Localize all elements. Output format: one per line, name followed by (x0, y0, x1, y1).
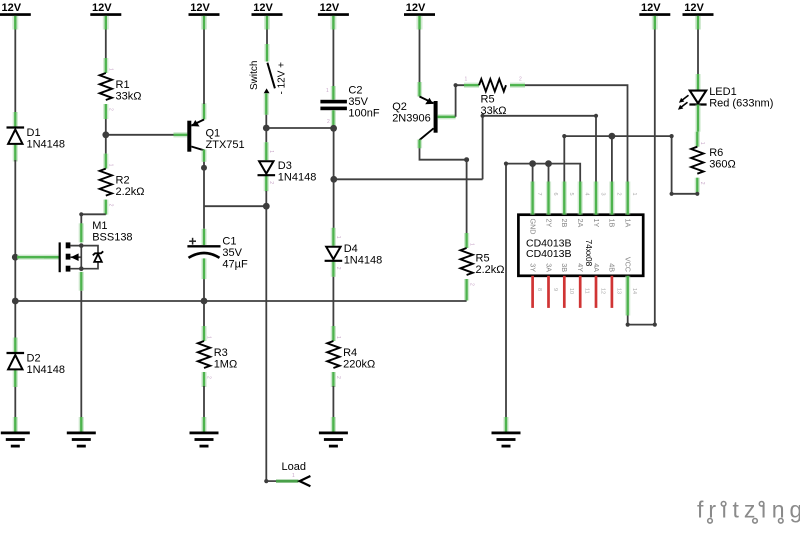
svg-text:2: 2 (615, 193, 621, 196)
ground GND2 (67, 417, 96, 448)
svg-text:2: 2 (335, 267, 341, 270)
pin 4B U1 bottom pin 13 unconnected (608, 263, 622, 308)
svg-text:35V: 35V (222, 247, 242, 259)
svg-text:1N4148: 1N4148 (344, 255, 383, 267)
svg-text:6: 6 (552, 193, 558, 196)
wire Q1 collector to C1 and D3 tap (203, 168, 205, 229)
resistor R3 1M&#937; (198, 326, 237, 387)
wire R1 to junction (105, 119, 107, 154)
svg-text:35V: 35V (348, 96, 368, 108)
wire junction to Q1 base (106, 134, 174, 136)
wire GND 2Y 2A header run (506, 164, 580, 182)
wire D4 to R4 crossing bus (332, 277, 334, 326)
svg-text:12V: 12V (641, 2, 661, 14)
diode D4 1N4148 (325, 228, 383, 277)
svg-text:2A: 2A (576, 219, 585, 228)
svg-text:1: 1 (699, 142, 705, 145)
svg-text:12V: 12V (190, 2, 210, 14)
svg-text:1: 1 (468, 243, 474, 246)
svg-text:360Ω: 360Ω (709, 159, 736, 171)
wire R2 to M1 drain (81, 214, 106, 224)
svg-text:2: 2 (335, 376, 341, 379)
wire 2Y pin stub (548, 164, 550, 182)
wire bus to R3 (203, 301, 205, 326)
svg-text:12V: 12V (320, 2, 340, 14)
ground GND3 (190, 417, 219, 448)
pin 1A U1 top pin 1 (624, 182, 638, 228)
svg-text:R5: R5 (476, 253, 490, 265)
svg-text:12V: 12V (684, 2, 704, 14)
wire D3 to collector node (265, 191, 267, 206)
ground GND1 (1, 417, 30, 448)
svg-text:ZTX751: ZTX751 (206, 139, 245, 151)
svg-text:2B: 2B (560, 219, 569, 228)
svg-text:R2: R2 (116, 175, 130, 187)
svg-text:Switch: Switch (249, 61, 260, 90)
svg-text:C2: C2 (348, 85, 362, 97)
junction GND pin (529, 160, 536, 167)
svg-text:9: 9 (552, 288, 558, 291)
svg-text:Load: Load (282, 461, 306, 473)
svg-text:1MΩ: 1MΩ (214, 359, 238, 371)
svg-text:- 12V +: - 12V + (277, 62, 288, 95)
svg-text:12V: 12V (2, 2, 22, 14)
resistor R2 2.2k&#937; (100, 154, 145, 215)
wire R6 bottom corner (695, 192, 699, 196)
svg-text:1: 1 (292, 473, 295, 479)
svg-text:2: 2 (268, 181, 274, 184)
svg-text:1: 1 (108, 68, 114, 71)
resistor R5 33k horizontal (464, 77, 525, 118)
svg-text:C1: C1 (222, 236, 236, 248)
svg-text:VCC: VCC (624, 257, 633, 272)
svg-text:12V: 12V (406, 2, 426, 14)
wire gate net to M1 gate (17, 255, 59, 260)
junction D3-collector-load node (263, 203, 270, 210)
wire Q2 base up to R5 (456, 85, 465, 117)
wire R5 2.2k to bus (464, 294, 469, 301)
svg-text:2: 2 (468, 283, 474, 286)
svg-text:4B: 4B (608, 263, 617, 272)
svg-text:13: 13 (615, 288, 621, 294)
svg-text:1: 1 (206, 336, 212, 339)
svg-text:R4: R4 (343, 347, 357, 359)
svg-text:33kΩ: 33kΩ (481, 105, 507, 117)
pin 1B U1 top pin 2 (608, 182, 622, 228)
capacitor C1 35V 47uF electrolytic (187, 229, 248, 279)
capacitor C2 35V 100nF (320, 85, 379, 129)
wire R5 to 1A riser (525, 85, 628, 181)
power +12V P1 (0, 2, 31, 30)
svg-text:CD4013B: CD4013B (526, 248, 572, 260)
svg-text:2: 2 (206, 376, 212, 379)
wire 12V P6 to Q2 emitter (419, 30, 421, 84)
svg-text:10: 10 (568, 288, 574, 294)
svg-text:2: 2 (699, 182, 705, 185)
wire 12V P5 to C2 (332, 30, 334, 89)
LED LED1 Red 633nm (678, 74, 774, 132)
wire VCC to 12V P7 (628, 30, 655, 325)
diode D2 1N4148 (7, 338, 66, 388)
wire C1 to bus (203, 279, 205, 301)
svg-text:33kΩ: 33kΩ (116, 91, 142, 103)
svg-text:BSS138: BSS138 (92, 232, 132, 244)
svg-text:M1: M1 (92, 220, 107, 232)
svg-text:8: 8 (536, 288, 542, 291)
svg-text:D1: D1 (27, 127, 41, 139)
svg-text:2.2kΩ: 2.2kΩ (476, 264, 505, 276)
svg-text:14: 14 (631, 288, 637, 294)
svg-text:220kΩ: 220kΩ (343, 359, 375, 371)
wire 2B up and right to LED net (564, 136, 697, 194)
pin 1Y U1 top pin 3 (592, 182, 606, 228)
svg-text:R6: R6 (709, 147, 723, 159)
load terminal (264, 461, 310, 486)
wire R3 to ground (203, 386, 205, 418)
svg-text:1: 1 (108, 164, 114, 167)
svg-text:47µF: 47µF (222, 259, 248, 271)
pin GND U1 top pin 7 (528, 182, 542, 235)
power +12V P4 (252, 2, 283, 30)
wire top run to 1Y pin column (483, 116, 596, 182)
wire 12V P2 to R1 (105, 30, 107, 59)
wire GND pin stub (532, 164, 534, 182)
ground GND4 (319, 417, 348, 448)
svg-text:R5: R5 (481, 94, 495, 106)
svg-text:11: 11 (584, 288, 590, 294)
svg-text:1N4148: 1N4148 (27, 139, 66, 151)
junction C2-switch-D4 node (330, 125, 337, 132)
junction Q2 collector bend (464, 157, 469, 162)
svg-text:R3: R3 (214, 347, 228, 359)
svg-text:D4: D4 (344, 243, 358, 255)
wire Q1 collector down (203, 162, 205, 168)
junction node gate-net at D1-D2 column (12, 254, 19, 261)
wire 12V P3 to Q1 emitter (203, 30, 205, 105)
svg-text:LED1: LED1 (709, 86, 737, 98)
svg-text:12V: 12V (92, 2, 112, 14)
power +12V P5 (318, 2, 349, 30)
svg-text:4Y: 4Y (576, 263, 585, 272)
junction C1-bus-R3 (201, 298, 208, 305)
svg-text:1N4148: 1N4148 (278, 172, 317, 184)
transistor Q1 ZTX751 pnp (174, 103, 245, 162)
power +12V P6 (404, 2, 435, 30)
svg-text:1Y: 1Y (592, 219, 601, 228)
svg-text:100nF: 100nF (348, 108, 379, 120)
junction Q1 collector node (201, 165, 207, 171)
wire C2 node down to 1Y tap (333, 128, 335, 179)
svg-text:2: 2 (108, 108, 114, 111)
svg-text:3: 3 (600, 193, 606, 196)
svg-text:2N3906: 2N3906 (392, 113, 431, 125)
switch SW1 SPST (249, 44, 287, 115)
wire 12V P1 to D1 anode-top (14, 30, 16, 113)
svg-text:Red (633nm): Red (633nm) (709, 98, 773, 110)
svg-text:GND: GND (528, 219, 537, 235)
svg-text:5: 5 (568, 193, 574, 196)
svg-text:R1: R1 (116, 79, 130, 91)
svg-text:7: 7 (536, 193, 542, 196)
power +12V P3 (189, 2, 220, 30)
svg-text:2.2kΩ: 2.2kΩ (116, 186, 145, 198)
pin 2Y U1 top pin 6 (544, 182, 558, 228)
pin 4A U1 bottom pin 12 unconnected (592, 263, 606, 308)
svg-text:3B: 3B (560, 263, 569, 272)
op-amp U1 CD4013B quad gate 74xx08 (518, 215, 643, 276)
svg-text:D2: D2 (27, 353, 41, 365)
resistor R4 220k&#937; (327, 326, 375, 387)
junction node bus at D1-D2 column (12, 298, 19, 305)
svg-text:1A: 1A (624, 219, 633, 228)
wire switch to node SW-C2 (265, 115, 267, 128)
svg-text:3A: 3A (544, 263, 553, 272)
svg-text:1: 1 (268, 150, 274, 153)
pin 3Y U1 bottom pin 8 unconnected (528, 263, 542, 308)
svg-text:12V: 12V (253, 2, 273, 14)
diode D1 1N4148 (7, 112, 66, 162)
wire collector node to D3 column (204, 205, 266, 207)
power +12V P8 (683, 2, 714, 30)
pin 2A U1 top pin 4 (576, 182, 590, 228)
svg-text:2Y: 2Y (544, 219, 553, 228)
svg-text:2: 2 (519, 77, 522, 83)
ground GND5 (492, 417, 521, 448)
fritzing logo (697, 497, 800, 524)
svg-text:2: 2 (327, 119, 330, 125)
svg-text:12: 12 (600, 288, 606, 294)
resistor R1 33k&#937; (100, 58, 142, 119)
wire D2 to ground (14, 387, 16, 418)
wire 1B pin stub (611, 136, 613, 181)
svg-text:D3: D3 (278, 160, 292, 172)
svg-text:4: 4 (584, 193, 590, 196)
junction switch-C2-D3 node (263, 125, 270, 132)
svg-text:1: 1 (326, 88, 329, 94)
wire D4 node right to 1Y riser (334, 178, 483, 180)
junction 2Y pin (545, 160, 552, 167)
svg-text:Q1: Q1 (206, 128, 221, 140)
wire D1 to D2 with taps (14, 160, 16, 338)
svg-text:1: 1 (335, 336, 341, 339)
junction R1-R2-Q1.base (102, 131, 109, 138)
wire M1 source to ground (80, 291, 82, 418)
wire Q2 collector down (420, 148, 467, 159)
svg-text:3Y: 3Y (528, 263, 537, 272)
pin 4Y U1 bottom pin 11 unconnected (576, 263, 590, 308)
wire node to C2 (266, 127, 333, 129)
wire D3 node down to load (265, 206, 267, 481)
svg-text:1: 1 (465, 77, 468, 83)
pin VCC U1 bottom pin 14 (624, 257, 638, 316)
pin 3A U1 bottom pin 9 unconnected (544, 263, 558, 308)
wire 12V P8 to LED1 (697, 30, 699, 76)
svg-text:2: 2 (108, 204, 114, 207)
wire bend down to R5 2.2k (466, 160, 468, 234)
pin 3B U1 bottom pin 10 unconnected (560, 263, 574, 308)
svg-text:1: 1 (631, 193, 637, 196)
transistor Q2 2N3906 pnp (392, 82, 455, 148)
resistor R6 360&#937; (691, 132, 736, 193)
wire header run to ground (505, 164, 507, 418)
junction 1B on LED net (609, 133, 616, 140)
svg-text:Q2: Q2 (392, 101, 407, 113)
svg-text:frıtzıng: frıtzıng (697, 497, 800, 523)
transistor M1 BSS138 n-mosfet (44, 220, 133, 291)
svg-text:1N4148: 1N4148 (27, 364, 66, 376)
power +12V P2 (90, 2, 121, 30)
svg-text:4A: 4A (592, 263, 601, 272)
junction D4-1Y node (330, 176, 337, 183)
wire node down to D3 (265, 128, 267, 142)
pin 2B U1 top pin 5 (560, 182, 574, 228)
svg-text:1B: 1B (608, 219, 617, 228)
svg-text:1: 1 (335, 236, 341, 239)
wire node down to D4 (333, 179, 335, 228)
wire R4 to ground (332, 386, 334, 418)
resistor R5 2.2k&#937; (460, 233, 504, 294)
wire bus D1 to R5 2.2k (15, 300, 466, 302)
wire 1Y riser up (482, 116, 484, 180)
wire 12V P4 to switch (266, 30, 268, 46)
power +12V P7 (639, 2, 670, 30)
diode D3 1N4148 (258, 142, 317, 191)
